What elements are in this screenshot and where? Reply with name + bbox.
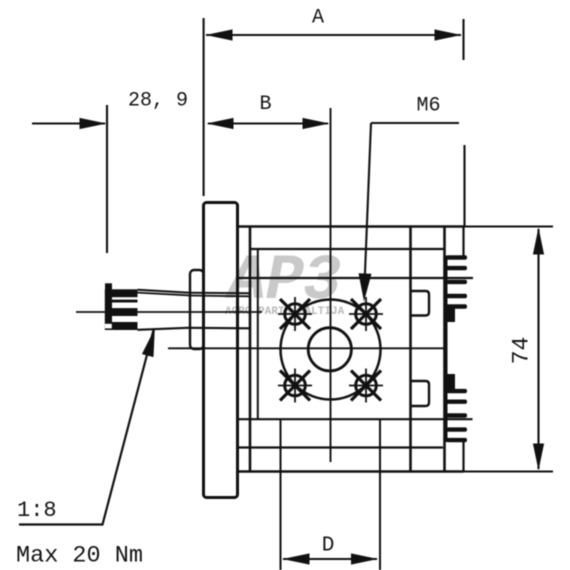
dimension D <box>283 535 379 565</box>
svg-text:28, 9: 28, 9 <box>128 90 188 113</box>
stud hole top-right <box>349 297 383 331</box>
tapered shaft 1:8, top edge <box>138 290 251 297</box>
body section line lower long <box>238 418 473 420</box>
label M6 with leader arrow to top-right stud hole <box>359 95 460 302</box>
rear port fitting lower (ribbed) <box>446 389 467 442</box>
dimension A <box>206 7 462 41</box>
svg-text:74: 74 <box>509 337 535 365</box>
body section line upper long <box>238 277 473 279</box>
pump body bottom edge + 74 bottom extension <box>238 470 553 473</box>
extension line, shaft end <box>106 105 108 253</box>
suction port boss lower <box>411 381 430 406</box>
center spigot circle <box>308 328 351 371</box>
stud hole bottom-left <box>278 369 312 403</box>
extension line, rear upper (A/74) <box>463 145 465 227</box>
body section line upper <box>250 248 445 250</box>
stud hole bottom-right <box>349 369 383 403</box>
rear port fitting upper (ribbed) <box>446 255 467 308</box>
svg-text:Max 20 Nm: Max 20 Nm <box>16 543 143 570</box>
shaft seal boss <box>190 270 204 349</box>
label Max 20 Nm <box>16 543 143 570</box>
svg-text:D: D <box>322 535 335 558</box>
rear cover rear edge lower <box>462 440 464 472</box>
pump body front edge <box>249 227 252 472</box>
rear cover front edge <box>443 227 446 472</box>
watermark AP3 logo <box>224 246 341 318</box>
body section line lower <box>238 446 443 448</box>
gear housing rear edge <box>409 227 412 472</box>
pilot / bolt circle <box>281 300 381 400</box>
suction port boss upper <box>411 291 430 316</box>
extension line, pump rear (A right) <box>462 19 464 60</box>
svg-text:A: A <box>312 7 324 30</box>
tapered shaft, bottom edge <box>138 328 251 330</box>
rear cover rear edge upper <box>462 227 464 259</box>
splined shaft end <box>105 283 138 330</box>
taper 1:8 leader arrow <box>19 329 155 525</box>
dimension 28,9 leader line <box>32 90 188 130</box>
svg-text:M6: M6 <box>416 95 440 118</box>
svg-text:1:8: 1:8 <box>17 498 57 523</box>
mounting flange plate <box>204 203 238 498</box>
dimension B <box>207 93 330 129</box>
rear cover middle studs <box>445 306 456 391</box>
svg-text:B: B <box>259 93 271 116</box>
watermark AGRO PARTS BALTIJA <box>225 306 345 318</box>
stud hole top-left <box>278 297 312 331</box>
label 1:8 <box>17 498 57 523</box>
extension line, flange face (A/B left) <box>203 18 205 196</box>
front view horizontal centerline <box>168 347 446 349</box>
shaft centerline <box>76 311 262 313</box>
front view vertical centerline / B right extension <box>330 108 332 462</box>
dimension 74 (vertical, right) <box>509 228 545 471</box>
extension line D right <box>379 419 381 570</box>
body inner vertical line <box>257 249 259 419</box>
extension line D left <box>280 419 282 570</box>
pump body top edge + 74 top extension <box>238 225 553 228</box>
